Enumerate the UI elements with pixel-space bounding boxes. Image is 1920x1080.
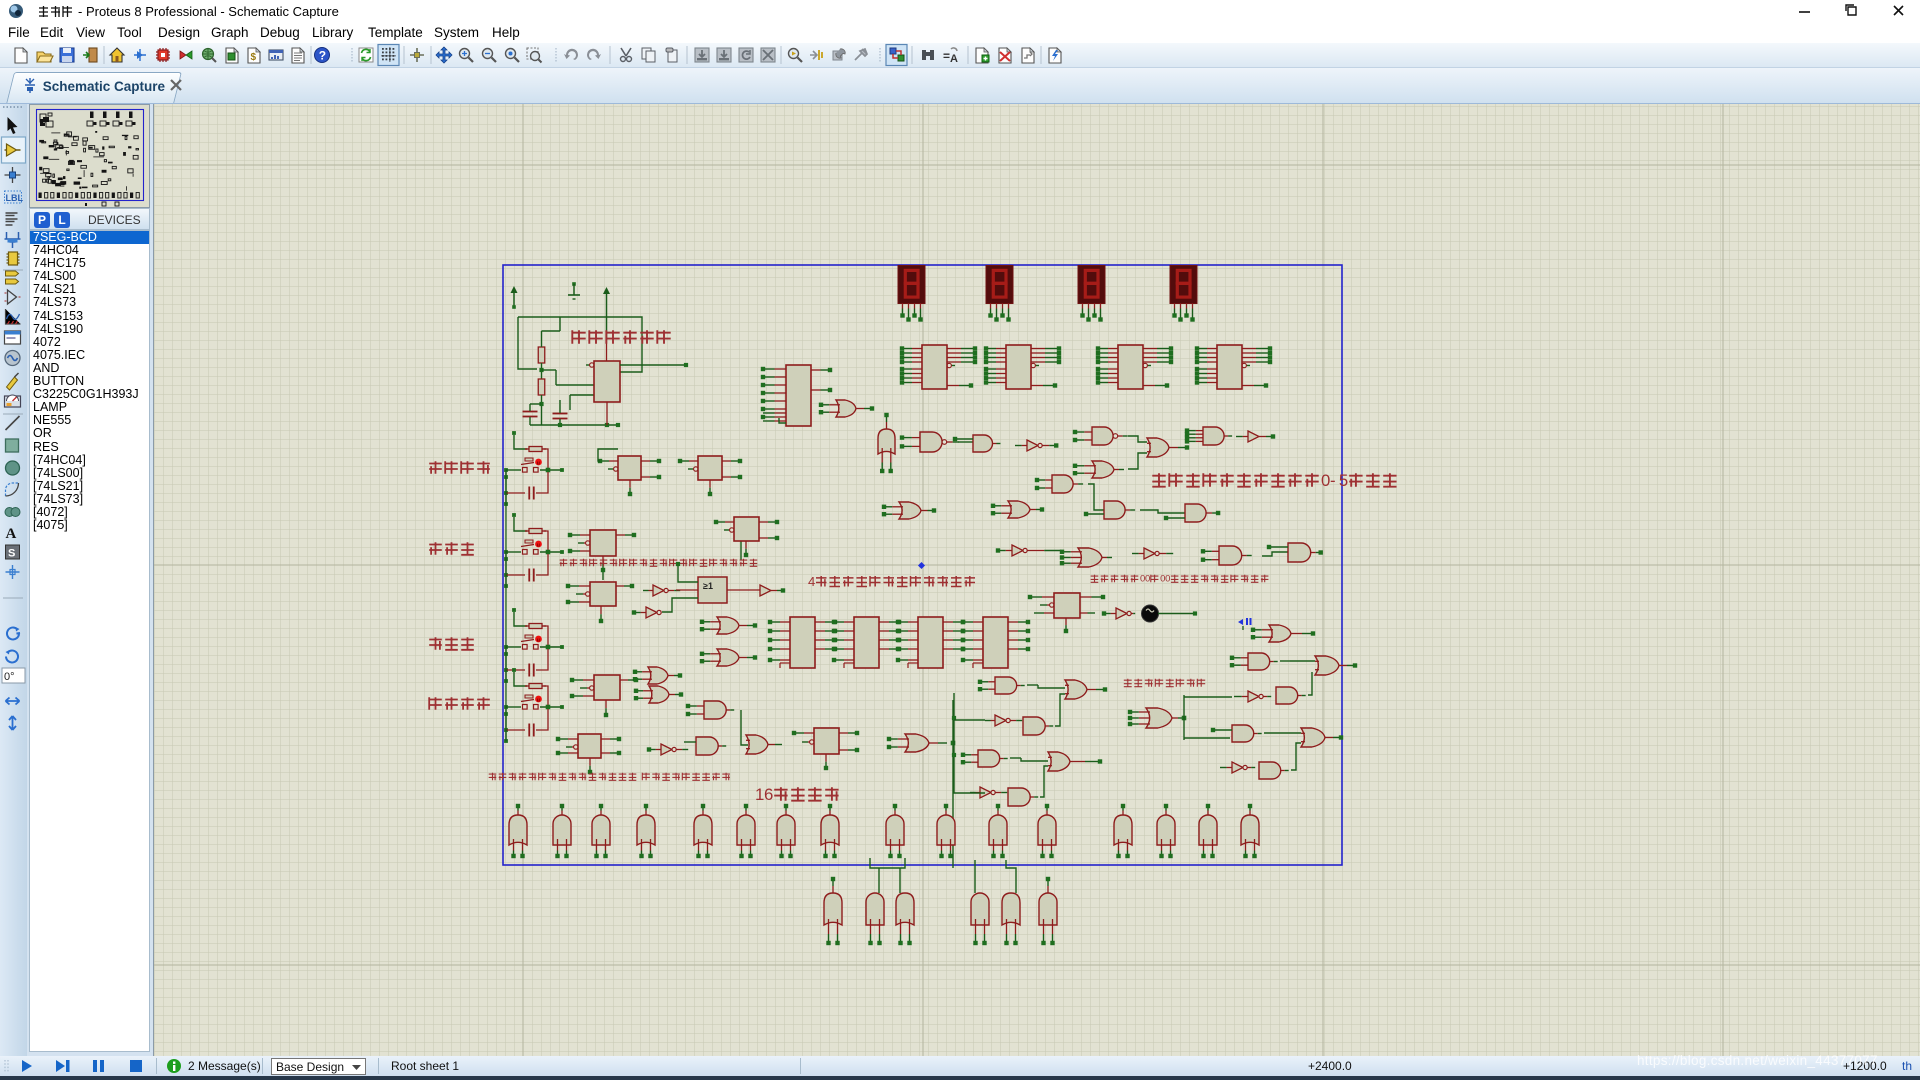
wire junction	[1182, 716, 1187, 721]
inverter G9	[1248, 431, 1259, 442]
and-gate G14	[1104, 501, 1125, 519]
vertical gate row1 #5	[694, 815, 712, 845]
7-segment display DS1	[898, 266, 925, 304]
wire	[779, 418, 786, 423]
7-segment display DS2	[986, 266, 1013, 304]
label 开始计时后选择按键的清零端有效 可清除原始控制数值	[489, 773, 497, 781]
and-gate G8 74LS21	[1203, 427, 1224, 445]
or-gate G7	[1147, 438, 1169, 457]
svg-text:A: A	[6, 526, 17, 542]
node	[541, 363, 543, 379]
wire	[518, 317, 642, 372]
7-segment display DS4	[1170, 266, 1197, 304]
nand-gate G6	[1092, 427, 1113, 445]
or-gate G1	[836, 400, 856, 417]
vertical gate row1 #14	[1157, 815, 1175, 845]
inverter G23 buffer	[760, 585, 771, 596]
vertical gate row1 #11	[989, 815, 1007, 845]
vertical gate row1 #15	[1199, 815, 1217, 845]
and-gate G48	[1232, 725, 1254, 742]
wire	[1040, 766, 1048, 797]
lamp L1	[1142, 605, 1159, 622]
capacitor C1	[523, 411, 538, 413]
decoder U13 7SEG-BCD driver	[1207, 348, 1217, 350]
or-block U8 4075.IEC	[698, 577, 727, 603]
label 分钟秒钟闪烁电路	[1124, 679, 1132, 687]
power terminal VCC2	[606, 293, 608, 340]
or-gate G12	[899, 502, 921, 519]
and-gate G46	[1276, 687, 1298, 704]
vertical gate row1 #9	[886, 815, 904, 845]
wire	[958, 441, 973, 443]
vertical gate row1 #2	[553, 815, 571, 845]
flip-flop U4 74LS73	[689, 460, 698, 462]
vertical gate row1 #8	[821, 815, 839, 845]
and-gate G51	[1259, 762, 1281, 779]
power terminal VCC1	[513, 292, 515, 306]
wire	[870, 858, 905, 868]
wire	[1128, 453, 1147, 469]
wire	[974, 860, 976, 893]
or-gate G13	[1008, 501, 1030, 518]
wire	[606, 340, 608, 361]
or-gate G44	[1315, 656, 1339, 675]
wire	[678, 566, 698, 582]
and-gate G38	[978, 750, 1000, 767]
wire left rail	[954, 693, 985, 793]
ground	[572, 282, 576, 286]
and-gate G37	[1023, 717, 1045, 735]
and-gate G20	[1288, 543, 1311, 562]
or-gate G26	[648, 667, 668, 684]
svg-text:≥1: ≥1	[703, 581, 713, 591]
register U22 74HC175	[908, 621, 918, 623]
vertical gate row1 #13	[1114, 815, 1132, 845]
svg-text:LBL: LBL	[6, 193, 24, 203]
svg-text:6: 6	[764, 785, 773, 804]
vertical gate row1 #6	[737, 815, 755, 845]
IC U15 74LS00	[568, 738, 578, 740]
wire	[1291, 743, 1301, 770]
and-gate G28	[704, 701, 726, 719]
vertical gate row1 #7	[777, 815, 795, 845]
register U20 74HC175	[780, 621, 790, 623]
flip-flop U5 74LS73	[580, 534, 590, 536]
or-gate G25	[717, 649, 739, 666]
or-gate G31	[746, 735, 768, 754]
wire	[530, 424, 618, 426]
flip-flop U16 74LS73	[804, 732, 814, 734]
label 加按键	[429, 542, 442, 555]
and-gate G43	[1248, 653, 1270, 670]
and-gate G34	[995, 677, 1017, 694]
wire	[602, 572, 604, 580]
or-gate G32	[905, 734, 929, 752]
wire	[541, 395, 543, 425]
capacitor C2	[553, 413, 568, 415]
register U23 74HC175	[973, 621, 983, 623]
button plus	[512, 513, 516, 517]
vertical gate row2 #5	[1002, 893, 1020, 925]
register U21 74HC175	[844, 621, 854, 623]
label 脉冲发生电路	[572, 330, 585, 343]
label 开始按键	[429, 461, 442, 474]
label 选择按键	[429, 697, 442, 710]
or-gate G42	[1269, 625, 1291, 642]
bottom dark strip	[0, 1076, 1920, 1080]
wire	[1140, 510, 1185, 513]
svg-text:4: 4	[808, 574, 815, 589]
inverter G18	[1144, 548, 1155, 559]
inverter G50	[1232, 762, 1243, 773]
7-segment display DS3	[1078, 266, 1105, 304]
wire	[740, 530, 742, 560]
IC U2 74LS190	[775, 368, 787, 370]
label 三输入或门控制按下开始按键后不可调整数值	[560, 559, 568, 567]
resistor R1	[538, 347, 545, 363]
or-gate G24	[717, 617, 739, 634]
toolbar	[0, 43, 1920, 68]
wire	[1055, 694, 1065, 726]
wire	[1264, 732, 1301, 734]
vertical gate row1 #1	[509, 815, 527, 845]
svg-text:$: $	[251, 52, 257, 63]
and-gate G41	[1008, 788, 1030, 806]
vertical gate row2 #6	[1039, 893, 1057, 925]
wire 555 output	[620, 364, 686, 366]
inverter G5	[1027, 440, 1038, 451]
svg-text:0: 0	[1165, 574, 1170, 585]
vertical gate row1 #16	[1241, 815, 1259, 845]
IC U7 74LS153	[579, 585, 590, 587]
left tool strip	[0, 104, 27, 1056]
svg-text:=: =	[943, 49, 950, 63]
inverter G45	[1248, 691, 1259, 702]
sidebar: minimap + device list	[27, 104, 154, 1056]
svg-text:0: 0	[1145, 574, 1150, 585]
or-gate G2 vertical	[878, 429, 895, 454]
or-gate G17 3-input	[1078, 548, 1102, 567]
sheet border	[503, 265, 1342, 865]
vertical gate row2 #2	[866, 893, 884, 925]
wire left rail	[505, 470, 507, 741]
inverter G16	[1012, 545, 1023, 556]
svg-text:1: 1	[755, 785, 764, 804]
and-gate G19	[1219, 546, 1242, 565]
svg-text:5: 5	[1339, 471, 1348, 490]
inverter G33 buffer to lamp	[1116, 608, 1127, 619]
vertical gate row2 #1	[824, 893, 842, 925]
and-gate G11	[1052, 475, 1073, 493]
wire	[741, 710, 748, 745]
wire	[1308, 672, 1312, 695]
svg-text:A: A	[950, 53, 958, 65]
svg-text:0°: 0°	[4, 671, 15, 683]
svg-text:-: -	[1330, 471, 1336, 490]
vertical gate row1 #4	[637, 815, 655, 845]
and-gate G15	[1185, 504, 1206, 522]
svg-text:u: u	[537, 697, 540, 703]
wire vertical bus right of G32	[952, 700, 954, 868]
nand-gate G3	[920, 432, 942, 452]
svg-text:u: u	[537, 542, 540, 548]
vertical gate row1 #3	[592, 815, 610, 845]
button minus	[512, 608, 516, 612]
wire	[598, 449, 618, 461]
label 开始后减为00：00时脉冲截至及小灯泡亮	[1091, 575, 1099, 583]
decoder U11 7SEG-BCD driver	[996, 348, 1006, 350]
svg-text:0: 0	[1321, 471, 1330, 490]
vertical gate row2 #4	[971, 893, 989, 925]
and-gate G30	[696, 737, 718, 755]
inverter G21	[653, 585, 664, 596]
wire	[1088, 484, 1104, 510]
or-gate G35	[1065, 680, 1087, 699]
svg-text:S: S	[8, 548, 15, 560]
wire	[727, 589, 760, 591]
label 使第三位数码管数值在0-5内显示	[1152, 473, 1165, 486]
or-gate G49	[1301, 728, 1325, 747]
vertical gate row1 #10	[937, 815, 955, 845]
wire	[518, 317, 537, 369]
IC U9 74LS153	[583, 679, 594, 681]
document tab	[0, 68, 1920, 104]
wire	[1158, 613, 1195, 615]
wire	[1128, 436, 1147, 442]
wire	[556, 384, 594, 386]
and-gate G4	[973, 435, 993, 452]
svg-text:u: u	[537, 637, 540, 643]
vertical gate row2 #3	[896, 893, 914, 925]
label 减按键	[429, 637, 442, 650]
flip-flop U3 74LS73	[609, 460, 618, 462]
or-gate G10	[1092, 461, 1114, 478]
menu bar	[0, 22, 1920, 43]
marker blue 4-11	[1238, 619, 1243, 625]
wire	[1262, 552, 1288, 556]
vertical gate row1 #12	[1038, 815, 1056, 845]
inverter G40	[980, 787, 991, 798]
button start	[512, 431, 516, 435]
decoder U12 7SEG-BCD driver	[1108, 348, 1118, 350]
inverter G22	[646, 607, 657, 618]
flip-flop U6 74LS73	[725, 521, 734, 523]
inverter G29	[661, 744, 672, 755]
or-gate G39	[1048, 752, 1070, 771]
decoder U10 7SEG-BCD driver	[912, 348, 922, 350]
inverter G36	[995, 715, 1006, 726]
IC U1 NE555	[589, 364, 591, 366]
marker blue diamond	[918, 562, 925, 569]
svg-text:?: ?	[319, 49, 326, 63]
or-gate G47 3-input	[1146, 708, 1172, 728]
or-gate G27	[649, 686, 669, 703]
svg-text:u: u	[537, 460, 540, 466]
button select	[512, 668, 516, 672]
window title bar	[0, 0, 1920, 22]
flip-flop U17 74HC175	[1042, 596, 1054, 598]
resistor R2	[538, 379, 545, 395]
status bar	[0, 1056, 1920, 1076]
